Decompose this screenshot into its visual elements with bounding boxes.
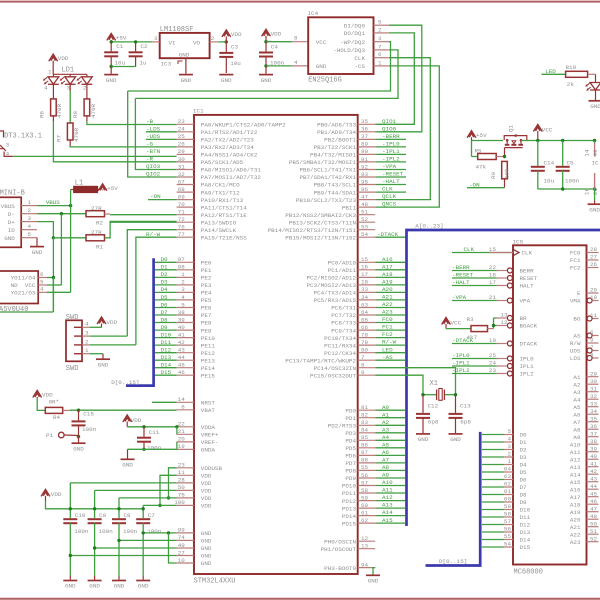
svg-text:A8: A8: [382, 464, 390, 471]
svg-text:D1: D1: [520, 439, 528, 446]
svg-text:PA1/RTS2/AD1/T22: PA1/RTS2/AD1/T22: [201, 129, 258, 136]
svg-text:PB11: PB11: [342, 204, 357, 211]
IC1 pin 18 PC3/MOSI2/AD13: [358, 284, 376, 286]
wire L1 to VBUS: [70, 190, 72, 206]
svg-text:R/W: R/W: [570, 340, 581, 347]
svg-text:VDDUSB: VDDUSB: [201, 465, 223, 472]
svg-text:CLK: CLK: [354, 55, 365, 62]
svg-text:PE3: PE3: [201, 282, 212, 289]
svg-text:26: 26: [590, 261, 598, 268]
svg-text:4: 4: [294, 59, 298, 66]
wire C7 vertical bottom: [142, 523, 144, 576]
IC1 pin 29 PA4/NSS1/AD4/CK2: [177, 153, 194, 155]
svg-text:7: 7: [361, 354, 365, 361]
svg-text:6: 6: [378, 51, 382, 58]
svg-text:HALT: HALT: [520, 283, 535, 290]
IC1 pin 81 PD0: [358, 409, 376, 411]
capacitor C3: [225, 42, 227, 52]
svg-text:47k: 47k: [476, 164, 487, 171]
svg-text:A9: A9: [573, 434, 581, 441]
IC1 pin 99 GND: [177, 532, 194, 534]
IC4 pin 3 -WP/DQ2: [374, 41, 389, 43]
IC1 pin 46 PE15: [177, 374, 194, 376]
svg-text:PD13: PD13: [342, 505, 357, 512]
svg-text:PA9/TX1/T12: PA9/TX1/T12: [201, 189, 240, 196]
svg-text:-RESET: -RESET: [382, 171, 404, 178]
svg-text:4: 4: [85, 321, 89, 328]
wire ESD pin5: [47, 284, 61, 286]
svg-text:22: 22: [178, 421, 186, 428]
svg-text:95: 95: [361, 178, 369, 185]
svg-text:A18: A18: [570, 501, 581, 508]
svg-text:D12: D12: [520, 522, 531, 529]
svg-text:R1: R1: [96, 244, 104, 251]
IC1 pin 50 VDD: [177, 489, 194, 491]
svg-text:30: 30: [590, 378, 598, 385]
svg-text:STM32L4XXU: STM32L4XXU: [194, 578, 236, 586]
svg-text:VDD: VDD: [271, 30, 282, 37]
svg-text:-DTACK: -DTACK: [452, 337, 474, 344]
power +5V symbol: [107, 33, 116, 40]
svg-text:100n: 100n: [147, 528, 162, 535]
wire net -IPL1 label stub: [375, 153, 406, 155]
IC1 pin 9 PC15/OSC32OUT: [358, 374, 376, 376]
svg-text:D1: D1: [161, 264, 169, 271]
wire net D7 bus tap: [155, 314, 177, 316]
power VCC at R3: [442, 318, 451, 325]
svg-text:98: 98: [178, 264, 186, 271]
svg-text:PE1: PE1: [201, 267, 212, 274]
wire net A20 to bus: [375, 291, 405, 293]
svg-text:2: 2: [211, 35, 215, 42]
svg-text:62: 62: [361, 517, 369, 524]
svg-text:PA6/MISO1/AD6/T31: PA6/MISO1/AD6/T31: [201, 167, 262, 174]
svg-text:14: 14: [584, 149, 591, 157]
svg-text:86: 86: [361, 442, 369, 449]
SWD pin 3: [74, 335, 82, 337]
svg-text:76: 76: [178, 224, 186, 231]
svg-text:50: 50: [590, 520, 598, 527]
svg-text:33: 33: [361, 286, 369, 293]
svg-text:C15: C15: [83, 411, 94, 418]
svg-text:D11: D11: [520, 514, 531, 521]
svg-text:YO21/O3: YO21/O3: [11, 290, 36, 297]
IC5 pin 5 D0: [482, 434, 504, 436]
svg-text:56: 56: [361, 472, 369, 479]
svg-text:PA8/CK1/MCO: PA8/CK1/MCO: [201, 182, 240, 189]
svg-text:100n: 100n: [74, 528, 89, 535]
svg-text:42: 42: [178, 339, 186, 346]
IC5 pin 41 A13: [587, 466, 599, 468]
svg-text:DI/DQ0: DI/DQ0: [344, 22, 366, 29]
svg-text:A2: A2: [573, 381, 581, 388]
wire net D13 bus tap: [155, 359, 177, 361]
svg-text:100n: 100n: [147, 445, 162, 452]
svg-text:72: 72: [178, 216, 186, 223]
svg-text:19: 19: [178, 443, 186, 450]
wire net -HALT label stub: [375, 184, 406, 186]
svg-text:R/-W: R/-W: [382, 339, 397, 346]
IC5 pin 39 A11: [587, 451, 599, 453]
net -ON label stub: [148, 199, 177, 201]
wire net A1 to bus: [375, 417, 405, 419]
svg-text:78: 78: [361, 331, 369, 338]
svg-text:51: 51: [590, 528, 598, 535]
power VCC arrow: [533, 125, 542, 132]
svg-text:GND: GND: [73, 445, 84, 452]
svg-text:C9: C9: [99, 512, 107, 519]
svg-text:88: 88: [361, 457, 369, 464]
ground IC3: [185, 58, 187, 74]
IC1 pin 3 PE4: [177, 291, 194, 293]
svg-text:CLK: CLK: [382, 186, 393, 193]
svg-text:PA0/WKUP1/CTS2/AD0/TAMP2: PA0/WKUP1/CTS2/AD0/TAMP2: [201, 122, 286, 129]
svg-text:QIO2: QIO2: [146, 171, 161, 178]
svg-text:4: 4: [181, 294, 185, 301]
IC1 pin 42 PE11: [177, 344, 194, 346]
svg-text:GND: GND: [201, 545, 212, 552]
svg-text:5: 5: [28, 231, 32, 238]
wire VBUS down to ESD chip: [70, 206, 72, 293]
svg-text:PD9: PD9: [345, 475, 356, 482]
svg-text:MC68000: MC68000: [514, 568, 543, 576]
ground C13: [449, 433, 463, 435]
wire D- to R2: [37, 213, 86, 215]
IC1 pin 28 VDD: [177, 482, 194, 484]
IC5 VMA pin 19: [587, 298, 592, 303]
svg-text:53: 53: [361, 224, 369, 231]
svg-text:45: 45: [178, 362, 186, 369]
svg-text:A7: A7: [573, 419, 581, 426]
svg-text:C10: C10: [75, 512, 86, 519]
svg-text:48: 48: [361, 201, 369, 208]
wire net A11 to bus: [375, 492, 405, 494]
svg-text:3: 3: [181, 286, 185, 293]
svg-text:6: 6: [40, 271, 44, 278]
IC5 pin 64 D5: [482, 471, 504, 473]
svg-text:PD1: PD1: [345, 415, 356, 422]
svg-text:D2: D2: [520, 447, 528, 454]
svg-text:19: 19: [590, 294, 598, 301]
wire VCC gnd rail: [538, 188, 595, 190]
svg-text:4: 4: [507, 436, 511, 443]
svg-text:RESET: RESET: [520, 275, 538, 282]
svg-text:64: 64: [504, 466, 512, 473]
svg-text:PD2/RTS3: PD2/RTS3: [328, 423, 357, 430]
wire C8 vertical bottom: [118, 523, 120, 576]
svg-text:61: 61: [504, 488, 512, 495]
IC5 pin 33 A5: [587, 406, 599, 408]
wire net -VPA label stub: [375, 169, 406, 171]
pin 3 VI: [152, 41, 159, 43]
svg-text:PB13/SCK2/CTS3/T11N: PB13/SCK2/CTS3/T11N: [289, 219, 357, 226]
wire QIO2 horizontal from IC4 pin3: [128, 42, 391, 91]
junction X1 left: [421, 393, 424, 396]
svg-text:4: 4: [44, 85, 48, 92]
wire net A19 to bus: [375, 284, 405, 286]
svg-text:PC5/RX3/AD15: PC5/RX3/AD15: [314, 297, 357, 304]
IC1 pin 64 PC7/T32: [358, 314, 376, 316]
svg-text:FC2: FC2: [382, 331, 393, 338]
svg-text:VDD: VDD: [201, 503, 212, 510]
svg-text:-CS: -CS: [354, 63, 365, 70]
svg-text:PC10/TX34: PC10/TX34: [324, 335, 356, 342]
ground USB shell: [36, 238, 38, 246]
svg-text:36: 36: [590, 423, 598, 430]
svg-text:57: 57: [361, 479, 369, 486]
IC1 pin 76 PA14/SWCLK: [177, 229, 194, 231]
svg-text:42: 42: [590, 468, 598, 475]
IC1 pin 27 GND: [177, 555, 194, 557]
IC1 pin 66 PC9/T34: [358, 329, 376, 331]
wire net A12 to bus: [375, 500, 405, 502]
svg-text:LDS: LDS: [570, 355, 581, 362]
wire GND49 to C9: [95, 547, 177, 549]
ESD pin 6: [38, 277, 47, 279]
wire GND74 to C8: [119, 539, 177, 541]
svg-text:58: 58: [504, 511, 512, 518]
IC1 pin 96 PB9/T44/SDA1: [358, 191, 376, 193]
svg-text:IPL2: IPL2: [520, 371, 535, 378]
svg-text:46: 46: [178, 369, 186, 376]
svg-text:PD3: PD3: [345, 430, 356, 437]
IC5 CLK pin 15: [452, 252, 513, 254]
capacitor C12: [422, 395, 424, 413]
svg-text:EN25Q16G: EN25Q16G: [308, 77, 342, 85]
svg-text:44: 44: [178, 354, 186, 361]
svg-text:PD11: PD11: [342, 490, 357, 497]
net VBUS wire: [37, 205, 71, 207]
svg-text:PC6/T31: PC6/T31: [331, 305, 356, 312]
IC1 pin 51 PB12/NSS2/SMBAI2/CK3: [358, 214, 376, 216]
wire net A14 to bus: [375, 515, 405, 517]
IC1 pin 23 PA0/WKUP1/CTS2/AD0/TAMP2: [177, 123, 194, 125]
wire net -IPL2 label stub: [375, 161, 406, 163]
junction C15 bottom: [77, 435, 80, 438]
svg-text:PA13/SWDIO: PA13/SWDIO: [201, 219, 237, 226]
svg-text:23: 23: [178, 118, 186, 125]
svg-text:-WP/DQ2: -WP/DQ2: [340, 39, 365, 46]
IC1 pin 36 PB1/AD9/T34: [358, 131, 376, 133]
svg-text:28: 28: [590, 246, 598, 253]
svg-text:A12: A12: [570, 456, 581, 463]
IC5 BG pin 11: [587, 316, 592, 321]
wire D+ down branch: [52, 238, 54, 312]
junction VO C3: [225, 40, 228, 43]
IC1 pin 68 PA9/TX1/T12: [177, 191, 194, 193]
svg-text:79: 79: [361, 339, 369, 346]
svg-text:35: 35: [590, 415, 598, 422]
svg-text:VMA: VMA: [570, 298, 581, 305]
svg-text:-IPL0: -IPL0: [452, 352, 470, 359]
svg-text:R/-W: R/-W: [146, 231, 161, 238]
resistor R9: [502, 161, 508, 178]
wire net A6 to bus: [375, 454, 405, 456]
IC1 pin 54 PB15/MOSI2/T13N/T152: [358, 236, 376, 238]
IC1 pin 40 PE9: [177, 329, 194, 331]
wire C4 to IC4 GND pin 4: [266, 65, 292, 67]
svg-text:C5: C5: [567, 159, 575, 166]
svg-text:-BERR: -BERR: [382, 133, 400, 140]
svg-text:NRST: NRST: [201, 400, 216, 407]
wire ESD lower net: [0, 311, 53, 313]
IC5 FC0 FC1 FC2 pins: [587, 252, 599, 254]
IC1 pin 10 GND: [177, 562, 194, 564]
IC5 pin 31 A3: [587, 391, 599, 393]
button S1 DT3.1X3.1: [0, 131, 4, 138]
svg-text:D10: D10: [161, 331, 172, 338]
svg-text:55: 55: [504, 533, 512, 540]
svg-text:D[0..15]: D[0..15]: [111, 379, 139, 386]
svg-text:34: 34: [361, 294, 369, 301]
svg-text:1: 1: [378, 59, 382, 66]
wire C10 vertical bottom: [69, 523, 71, 576]
wire ESD pin6: [47, 277, 53, 279]
svg-text:VCC: VCC: [316, 39, 327, 46]
net QIO1 wire to IC4: [375, 33, 414, 124]
IC5 pin 48 A20: [587, 518, 599, 520]
IC1 pin 2 PE3: [177, 284, 194, 286]
capacitor C13: [455, 395, 457, 413]
svg-text:GNDA: GNDA: [201, 447, 216, 454]
svg-text:VCC: VCC: [451, 320, 462, 327]
svg-text:VO: VO: [193, 39, 201, 46]
svg-text:VDD: VDD: [58, 55, 69, 62]
IC5 pin 45 A17: [587, 496, 599, 498]
svg-text:41: 41: [590, 460, 598, 467]
IC1 pin 55 PD8: [358, 469, 376, 471]
svg-text:D8: D8: [520, 492, 528, 499]
svg-text:BR: BR: [520, 315, 528, 322]
svg-text:PE15: PE15: [201, 372, 216, 379]
svg-text:61: 61: [361, 509, 369, 516]
svg-text:D10: D10: [520, 507, 531, 514]
svg-text:PC9/T34: PC9/T34: [331, 327, 356, 334]
svg-text:2: 2: [181, 279, 185, 286]
LED LD1 blue element: [86, 74, 88, 77]
power VDD rail bottom: [41, 489, 50, 496]
svg-text:C11: C11: [149, 429, 160, 436]
IC5 pin 43 A15: [587, 481, 599, 483]
svg-text:2: 2: [28, 207, 32, 214]
svg-text:5: 5: [40, 278, 44, 285]
svg-text:55: 55: [361, 464, 369, 471]
IC1 pin 60 PD13: [358, 507, 376, 509]
wire VDD11 jog: [160, 475, 177, 505]
svg-text:D6: D6: [161, 301, 169, 308]
IC5 pin 62 D7: [482, 486, 504, 488]
IC1 pin 90 PB4/T32/MISO1: [358, 153, 376, 155]
IC5 pin 1 D4: [482, 464, 504, 466]
net -DTACK stub: [375, 236, 406, 238]
svg-text:IC4: IC4: [308, 10, 319, 17]
svg-text:QNCS: QNCS: [382, 201, 397, 208]
IC1 pin 93 PB7/SDA1/T42/RX1: [358, 176, 376, 178]
svg-text:A13: A13: [382, 502, 393, 509]
svg-text:PE4: PE4: [201, 290, 212, 297]
power +5V at L1: [98, 184, 107, 191]
svg-text:PC14/OSC32IN: PC14/OSC32IN: [314, 365, 357, 372]
svg-text:D[0..15]: D[0..15]: [439, 558, 467, 565]
svg-text:52: 52: [361, 216, 369, 223]
wire +5V to Q1: [472, 140, 504, 142]
svg-text:A10: A10: [570, 441, 581, 448]
svg-text:A22: A22: [570, 531, 581, 538]
wire net A10 to bus: [375, 485, 405, 487]
IC5 HALT pin 17: [507, 283, 512, 288]
IC3 origin mark: [178, 61, 183, 64]
svg-text:R8: R8: [72, 110, 79, 118]
svg-text:90: 90: [361, 148, 369, 155]
svg-text:A4: A4: [382, 434, 390, 441]
IC5 pin 55 D14: [482, 539, 504, 541]
IC5 pin 36 A8: [587, 428, 599, 430]
svg-text:GND: GND: [138, 583, 149, 590]
svg-text:+5V: +5V: [107, 185, 118, 192]
svg-text:5: 5: [378, 19, 382, 26]
svg-text:5: 5: [507, 428, 511, 435]
IC1 pin 41 PE10: [177, 337, 194, 339]
svg-text:-R: -R: [146, 156, 154, 163]
svg-text:74: 74: [178, 534, 186, 541]
wire net LED to bus: [375, 352, 405, 354]
svg-text:PB6/SCL1/T41/TX1: PB6/SCL1/T41/TX1: [299, 167, 356, 174]
svg-text:D9: D9: [520, 499, 528, 506]
junction C2: [134, 40, 137, 43]
svg-text:17: 17: [361, 271, 369, 278]
svg-text:3: 3: [154, 35, 158, 42]
svg-text:4: 4: [28, 223, 32, 230]
wire VDD to R4: [37, 398, 45, 410]
resistor R7: [69, 84, 71, 91]
wire net A3 to bus: [375, 432, 405, 434]
svg-text:VDD: VDD: [201, 495, 212, 502]
svg-text:16: 16: [361, 264, 369, 271]
svg-text:A21: A21: [382, 294, 393, 301]
ground SWD pin1: [90, 353, 103, 355]
svg-text:7: 7: [590, 344, 594, 351]
svg-text:52: 52: [590, 535, 598, 542]
svg-text:PE11: PE11: [201, 342, 216, 349]
junction C5 bottom: [561, 187, 564, 190]
svg-text:YO11/O4: YO11/O4: [11, 275, 36, 282]
IC1 pin 98 PE1: [177, 269, 194, 271]
wire C8 vertical top: [118, 498, 120, 518]
wire VO to C3: [218, 41, 226, 43]
svg-text:GND: GND: [261, 77, 272, 84]
junction C1 bottom: [110, 65, 113, 68]
svg-text:GND: GND: [106, 77, 117, 84]
svg-text:UDS: UDS: [570, 348, 581, 355]
IC4 pin 6 CLK: [374, 57, 389, 59]
svg-text:54: 54: [504, 541, 512, 548]
wire QIO3 horizontal from IC4 pin7: [135, 50, 398, 99]
svg-text:PE7: PE7: [201, 312, 212, 319]
svg-text:66: 66: [361, 324, 369, 331]
svg-text:A3: A3: [573, 389, 581, 396]
svg-text:39: 39: [590, 445, 598, 452]
svg-text:-G: -G: [146, 141, 154, 148]
IC1 pin 91 PB5/SMBA1/T32/MOSI1: [358, 161, 376, 163]
svg-text:PA5/SCK1/AD5: PA5/SCK1/AD5: [201, 159, 244, 166]
net QIO0 wire to IC4: [375, 25, 422, 132]
svg-text:27: 27: [178, 549, 186, 556]
svg-text:GND: GND: [32, 249, 43, 256]
svg-text:6: 6: [590, 329, 594, 336]
IC1 pin 52 PB13/SCK2/CTS3/T11N: [358, 221, 376, 223]
svg-text:57: 57: [504, 518, 512, 525]
wire net D0 bus tap: [155, 261, 177, 263]
